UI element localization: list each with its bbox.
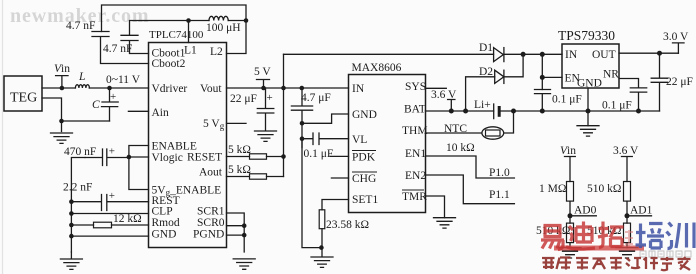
- svg-text:D1: D1: [479, 42, 493, 54]
- node D2 anode tap: [463, 109, 468, 114]
- svg-text:23.58 kΩ: 23.58 kΩ: [326, 219, 369, 231]
- wire NTC drop: [504, 111, 514, 133]
- capacitor 4.7nF second: [121, 35, 149, 53]
- svg-text:PDK: PDK: [352, 152, 376, 164]
- svg-text:NTC: NTC: [444, 123, 467, 135]
- node MAX IN tap: [300, 86, 305, 91]
- svg-text:PGND: PGND: [193, 229, 224, 241]
- capacitor 22uF output: [257, 88, 274, 131]
- svg-text:3.6 V: 3.6 V: [613, 145, 639, 157]
- svg-text:2.2 nF: 2.2 nF: [63, 182, 92, 194]
- inductor L: [75, 85, 89, 88]
- svg-text:RESET: RESET: [187, 152, 222, 164]
- svg-text:AD1: AD1: [630, 205, 653, 217]
- resistor 510k AD0: [567, 223, 574, 243]
- node NR cap gnd tap: [636, 109, 641, 114]
- svg-text:MAX8606: MAX8606: [352, 62, 402, 74]
- svg-text:Vout: Vout: [200, 83, 222, 95]
- TEG box: [4, 76, 42, 111]
- svg-text:D2: D2: [479, 66, 493, 78]
- svg-text:OUT: OUT: [592, 49, 616, 61]
- wire D2 cathode up: [504, 54, 523, 77]
- wire GND row: [71, 235, 148, 237]
- svg-text:THM: THM: [402, 125, 428, 137]
- wire RESET pullup vertical: [283, 54, 285, 176]
- svg-text:0.1 μF: 0.1 μF: [602, 100, 632, 112]
- capacitor 2.2nF: [71, 195, 148, 211]
- node TEG ground junction: [59, 119, 64, 124]
- svg-text:IN: IN: [565, 49, 578, 61]
- svg-text:5 kΩ: 5 kΩ: [228, 164, 251, 176]
- node OUT 22uF tap: [657, 51, 662, 56]
- wire inner rail cap2 to L1 node: [130, 21, 210, 36]
- svg-text:BAT: BAT: [404, 104, 426, 116]
- watermark red underline band: [554, 246, 644, 251]
- watermark small gray chars: [640, 251, 691, 257]
- svg-text:Vdriver: Vdriver: [152, 83, 188, 95]
- capacitor 470nF: [85, 149, 129, 166]
- svg-text:5 V: 5 V: [254, 66, 271, 78]
- svg-text:C: C: [92, 99, 100, 111]
- node CLP rail junction: [69, 211, 74, 216]
- svg-text:3.6 V: 3.6 V: [431, 89, 457, 101]
- svg-text:NR: NR: [603, 69, 619, 81]
- svg-text:510 kΩ: 510 kΩ: [587, 183, 621, 195]
- wire EN2 to P1.1: [426, 175, 515, 204]
- svg-text:4.7 nF: 4.7 nF: [66, 20, 95, 32]
- wire SYS stub: [426, 87, 447, 89]
- wire GND jog MAX: [302, 114, 349, 123]
- svg-text:Vin: Vin: [54, 63, 70, 75]
- svg-text:TPLC74100: TPLC74100: [149, 29, 204, 41]
- svg-text:IN: IN: [352, 83, 365, 95]
- capacitor 4.7nF first: [92, 32, 149, 64]
- resistor 510k AD1: [624, 223, 631, 243]
- node 5V tap: [261, 86, 266, 91]
- svg-text:L2: L2: [210, 46, 223, 58]
- wire TPS GND drop: [587, 88, 589, 126]
- resistor 12k: [71, 224, 93, 226]
- node TPS EN junction: [540, 75, 545, 80]
- 3.6V divider tick: [622, 157, 633, 182]
- svg-text:CHG: CHG: [352, 173, 376, 185]
- resistor 5k Aout: [227, 176, 250, 178]
- svg-text:Rmod: Rmod: [152, 217, 180, 229]
- node D1 D2 cathode junction: [521, 52, 526, 57]
- 3.6V tick BAT: [448, 100, 455, 112]
- wire battery to gnd rail: [499, 110, 659, 112]
- node 0-11V / cap C tap: [107, 86, 112, 91]
- wire EN IN vertical: [542, 54, 562, 89]
- 5V supply tick: [257, 80, 270, 89]
- ground SET1: [311, 248, 333, 268]
- wire L2 right drop: [227, 21, 247, 54]
- svg-text:22 μF: 22 μF: [230, 93, 257, 105]
- svg-text:0~11 V: 0~11 V: [106, 74, 141, 86]
- svg-text:TMR: TMR: [402, 191, 427, 203]
- svg-text:+: +: [109, 190, 115, 202]
- svg-text:GND: GND: [577, 78, 602, 90]
- watermark big chars yi di tuo (red): [541, 222, 624, 250]
- svg-text:Aout: Aout: [199, 167, 223, 179]
- node Vin tap: [60, 86, 65, 91]
- svg-text:+: +: [110, 91, 116, 103]
- wire D1 cathode to TPS IN: [504, 53, 562, 55]
- svg-text:SYS: SYS: [405, 81, 426, 93]
- capacitor C: [102, 88, 119, 121]
- wire Vout to MAX IN: [227, 87, 349, 89]
- thermistor NTC: [482, 127, 504, 139]
- wire ENABLE Vlogic 5Vg vertical: [129, 146, 149, 190]
- node TPS GND tap: [586, 109, 591, 114]
- svg-text:L: L: [78, 71, 85, 83]
- resistor 23.58k SET1: [322, 200, 349, 210]
- wire CLP row: [71, 213, 148, 215]
- wire D2 anode from BAT: [466, 77, 495, 111]
- node REST rail junction: [69, 199, 74, 204]
- diode D2: [495, 70, 504, 83]
- svg-text:22 μF: 22 μF: [666, 76, 693, 88]
- svg-text:GND: GND: [152, 229, 177, 241]
- svg-text:CLP: CLP: [152, 206, 173, 218]
- ground SCR: [233, 259, 255, 269]
- node TPS IN junction: [540, 52, 545, 57]
- svg-text:1 MΩ: 1 MΩ: [539, 183, 566, 195]
- svg-text:EN1: EN1: [405, 148, 426, 160]
- wire NR to cap: [619, 79, 639, 88]
- wire Ain stub: [128, 110, 148, 112]
- svg-text:Li+: Li+: [474, 99, 491, 111]
- overlines for active-low pins: [352, 151, 424, 191]
- wire down to analog ground: [302, 139, 321, 248]
- ground AD0: [559, 248, 581, 258]
- svg-text:SCR0: SCR0: [197, 217, 225, 229]
- Vin supply tick: [56, 76, 68, 88]
- wire AD0: [570, 215, 596, 217]
- svg-text:Vlogic: Vlogic: [152, 152, 183, 164]
- Vin divider tick: [565, 157, 576, 182]
- svg-text:+: +: [267, 92, 273, 104]
- wire AD1: [627, 215, 652, 217]
- svg-text:10 kΩ: 10 kΩ: [446, 142, 475, 154]
- node battery minus / NTC tap: [511, 109, 516, 114]
- node 0.1uF left: [300, 136, 305, 141]
- svg-text:GND: GND: [352, 109, 377, 121]
- wire EN1 to P1.0: [426, 156, 515, 178]
- svg-text:SET1: SET1: [352, 194, 378, 206]
- wire SCR vertical: [227, 213, 245, 252]
- svg-text:TPS79330: TPS79330: [558, 28, 615, 43]
- ground AD1: [616, 248, 638, 258]
- svg-text:Cboot2: Cboot2: [152, 58, 186, 70]
- wire 470nF to left rail: [71, 158, 85, 253]
- IC U1 TPLC74100 box: [149, 43, 227, 248]
- battery Li+: [493, 104, 495, 119]
- IC U2 MAX8606 box: [349, 75, 426, 213]
- wire L1 pin drop: [188, 21, 190, 43]
- wire CHG stub: [331, 177, 348, 179]
- svg-text:5 kΩ: 5 kΩ: [228, 144, 251, 156]
- node Vlogic junction: [127, 155, 132, 160]
- node L1 top junction: [186, 18, 191, 23]
- node SET1 ground junction: [319, 245, 324, 250]
- node SCR0 junction: [242, 223, 247, 228]
- node 0.1uF gnd tap: [540, 109, 545, 114]
- node AD1: [625, 213, 630, 218]
- capacitor 22uF TPS out: [651, 53, 668, 111]
- svg-text:VL: VL: [352, 134, 367, 146]
- svg-text:4.7 μF: 4.7 μF: [301, 92, 331, 104]
- wire PDK stub: [330, 155, 348, 157]
- capacitor 0.1uF NR: [630, 88, 646, 111]
- watermark light red small char: [625, 230, 633, 246]
- node GND rail junction: [69, 234, 74, 239]
- capacitor 0.1uF EN: [535, 90, 551, 112]
- svg-text:0.1 μF: 0.1 μF: [304, 148, 334, 160]
- svg-text:3.0 V: 3.0 V: [663, 31, 689, 43]
- svg-text:P1.0: P1.0: [489, 167, 510, 179]
- capacitor 0.1uF VL: [302, 133, 349, 145]
- wire TEG to Vdriver: [42, 87, 149, 89]
- svg-text:EN2: EN2: [405, 170, 426, 182]
- node AD0: [568, 213, 573, 218]
- resistor 1M: [567, 182, 574, 202]
- ground TEG: [51, 133, 73, 143]
- resistor 5k RESET: [227, 156, 250, 158]
- svg-text:Ain: Ain: [152, 107, 170, 119]
- ground TMR: [434, 218, 456, 228]
- ground left rail: [60, 252, 82, 269]
- wire cap C bottom return: [62, 120, 110, 122]
- overline TMR: [402, 189, 424, 191]
- svg-text:+: +: [109, 146, 115, 158]
- wire THM row: [426, 132, 482, 134]
- inductor 100uH: [209, 16, 228, 20]
- svg-text:P1.1: P1.1: [489, 189, 510, 201]
- svg-text:100 μH: 100 μH: [206, 22, 241, 34]
- svg-text:SCR1: SCR1: [197, 206, 225, 218]
- ground 22uF: [255, 131, 277, 141]
- IC U3 TPS79330 box: [562, 44, 619, 88]
- svg-text:470 nF: 470 nF: [64, 146, 96, 158]
- node Rmod rail junction: [69, 223, 74, 228]
- svg-text:TEG: TEG: [10, 91, 37, 106]
- svg-text:12 kΩ: 12 kΩ: [113, 213, 142, 225]
- watermark dark red slogan row: [542, 257, 691, 270]
- 3.0V tick: [673, 43, 685, 53]
- watermark big chars pei xun (blue): [636, 223, 695, 249]
- overline CHG: [352, 171, 377, 173]
- diode D1: [494, 48, 504, 62]
- node Vout branch: [281, 86, 286, 91]
- node 4.7uF bottom: [300, 121, 305, 126]
- svg-text:L1: L1: [184, 45, 197, 57]
- overline PDK: [352, 150, 376, 152]
- ground TPS: [577, 126, 599, 136]
- node PGND junction: [242, 233, 247, 238]
- wire top outer rail: [102, 5, 247, 32]
- node RESET pullup junction: [281, 154, 286, 159]
- scan edge artifact: [2, 0, 4, 274]
- svg-text:4.7 nF: 4.7 nF: [103, 43, 132, 55]
- wire coil to right rail: [228, 20, 246, 22]
- junction dots group: [59, 18, 662, 250]
- wire OUT row: [619, 52, 678, 54]
- wire TMR to ground: [426, 196, 445, 218]
- wire 5Vg stub: [227, 122, 247, 124]
- wire BAT row: [426, 110, 494, 112]
- node L2 top junction: [244, 18, 249, 23]
- svg-text:AD0: AD0: [574, 205, 597, 217]
- svg-text:Vin: Vin: [560, 145, 576, 157]
- wire D1 anode long: [284, 53, 494, 55]
- node 3.6V BAT tap: [449, 109, 454, 114]
- capacitor 4.7uF MAX: [291, 88, 312, 148]
- svg-text:0.1 μF: 0.1 μF: [552, 94, 582, 106]
- wire TEG lower to ground: [42, 98, 62, 132]
- resistor 510k top: [624, 182, 631, 202]
